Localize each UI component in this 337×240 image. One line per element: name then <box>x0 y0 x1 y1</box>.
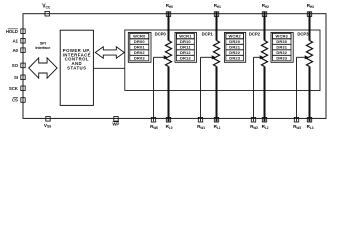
svg-text:DR13: DR13 <box>180 56 191 61</box>
svg-text:Interface: Interface <box>35 46 50 50</box>
svg-text:DCP3: DCP3 <box>297 32 309 37</box>
svg-text:DR31: DR31 <box>276 45 287 50</box>
svg-text:WCR1: WCR1 <box>179 34 192 39</box>
svg-text:SCK: SCK <box>9 86 19 91</box>
svg-text:WCR2: WCR2 <box>229 34 242 39</box>
svg-text:CS: CS <box>12 98 18 103</box>
svg-text:DR11: DR11 <box>180 45 191 50</box>
svg-text:DR30: DR30 <box>276 39 287 44</box>
svg-text:DR00: DR00 <box>134 39 145 44</box>
svg-text:A1: A1 <box>12 38 18 43</box>
svg-text:DR02: DR02 <box>134 50 145 55</box>
svg-text:DR32: DR32 <box>276 50 287 55</box>
svg-text:DR12: DR12 <box>180 50 191 55</box>
svg-text:WCR0: WCR0 <box>133 34 146 39</box>
svg-text:WCR3: WCR3 <box>276 34 289 39</box>
svg-text:SI: SI <box>14 75 18 80</box>
svg-text:DR03: DR03 <box>134 56 145 61</box>
svg-text:DR22: DR22 <box>229 50 240 55</box>
svg-text:DCP1: DCP1 <box>202 32 214 37</box>
svg-text:DR21: DR21 <box>229 45 240 50</box>
svg-text:DR10: DR10 <box>180 39 191 44</box>
svg-text:DR20: DR20 <box>229 39 240 44</box>
svg-text:STATUS: STATUS <box>67 65 86 70</box>
svg-text:SO: SO <box>12 63 19 68</box>
svg-text:DR33: DR33 <box>276 56 287 61</box>
svg-text:DR01: DR01 <box>134 45 145 50</box>
svg-text:DR23: DR23 <box>229 56 240 61</box>
svg-text:WP: WP <box>112 122 119 127</box>
svg-text:DCP2: DCP2 <box>249 32 261 37</box>
svg-text:HOLD: HOLD <box>6 29 18 34</box>
svg-text:DCP0: DCP0 <box>155 32 167 37</box>
svg-text:A0: A0 <box>12 48 18 53</box>
